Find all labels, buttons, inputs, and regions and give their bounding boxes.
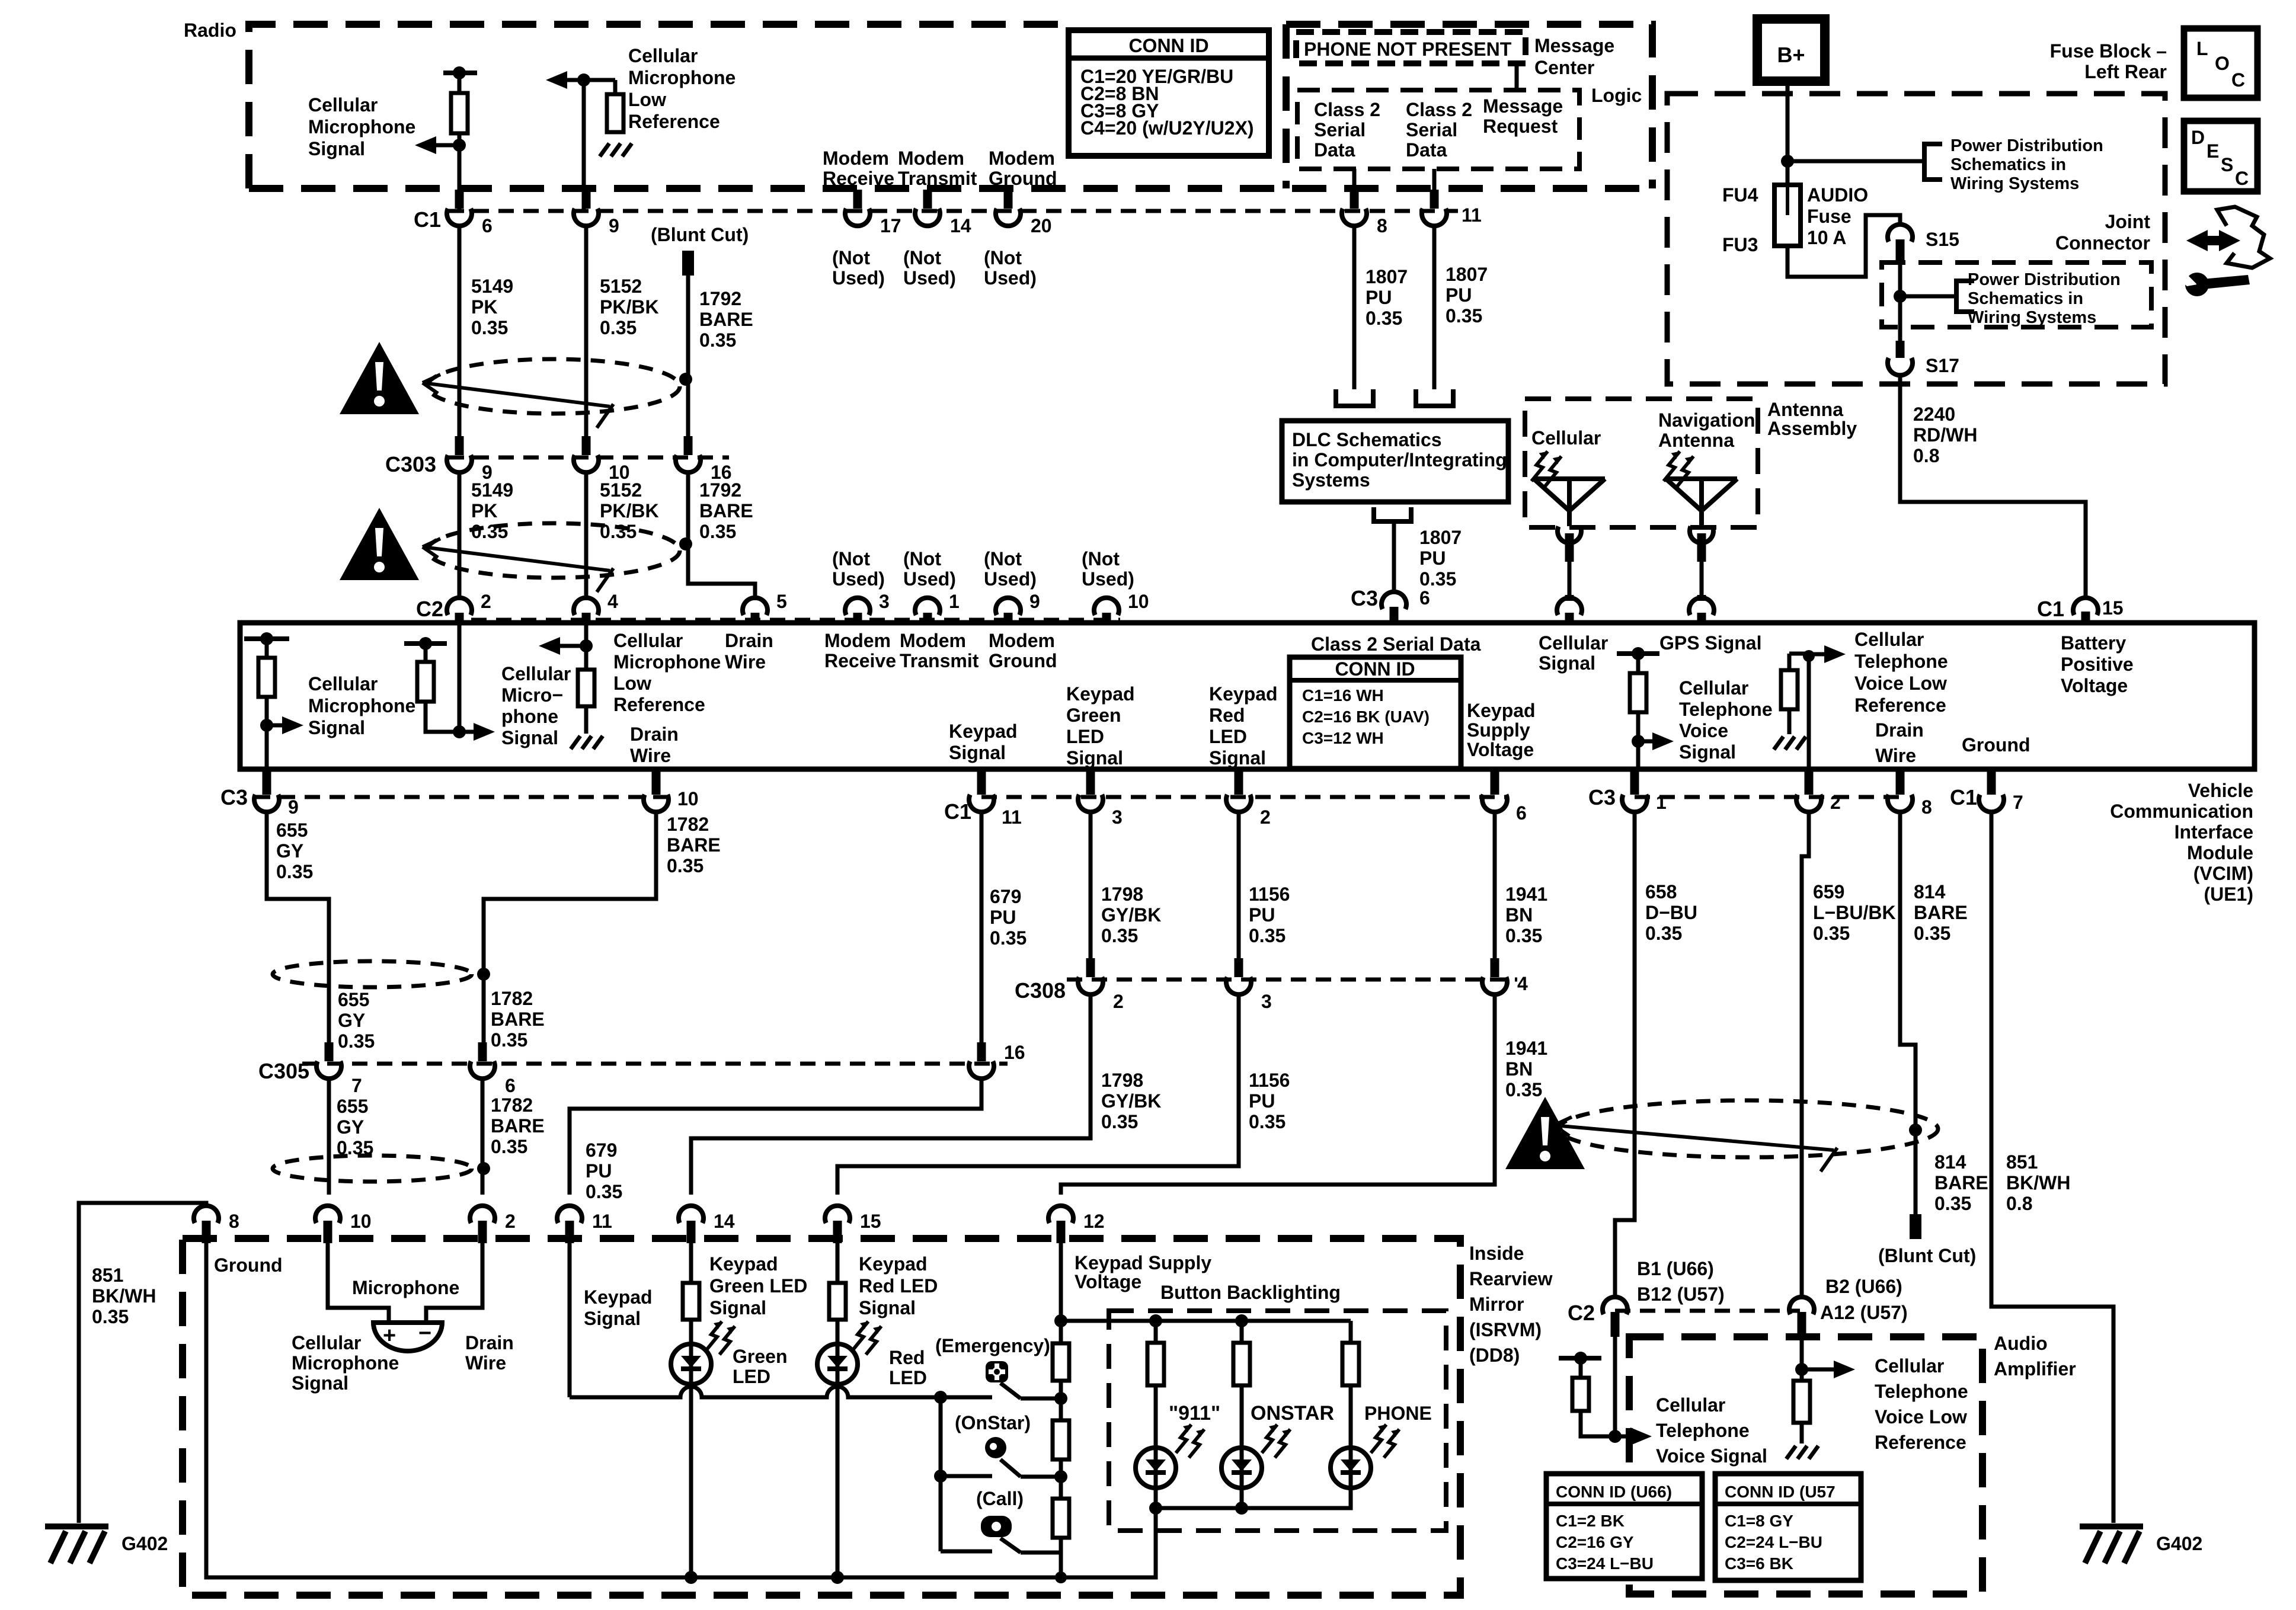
connector C2 antenna pin (gps signal) [1689, 598, 1714, 623]
connector C3 pin 10 (drain wire) [644, 770, 699, 812]
svg-text:1782: 1782 [491, 1094, 533, 1116]
svg-text:(ISRVM): (ISRVM) [1469, 1319, 1542, 1340]
svg-text:15: 15 [2102, 597, 2124, 619]
svg-text:17: 17 [880, 215, 901, 236]
svg-text:14: 14 [950, 215, 971, 236]
svg-text:Antenna: Antenna [1767, 399, 1843, 420]
Button Backlighting dashed box [1109, 1311, 1446, 1531]
svg-text:0.8: 0.8 [1913, 445, 1939, 466]
svg-text:1798: 1798 [1101, 1070, 1143, 1091]
svg-text:Signal: Signal [949, 742, 1006, 763]
shield symbol twisted pair (lower) [423, 523, 680, 592]
svg-text:1792: 1792 [699, 479, 741, 501]
svg-text:814: 814 [1934, 1151, 1966, 1173]
svg-text:0.35: 0.35 [471, 317, 508, 338]
svg-text:Audio: Audio [1994, 1333, 2048, 1354]
backlighting onstar branch resistor [1233, 1321, 1250, 1448]
svg-text:B2 (U66): B2 (U66) [1825, 1276, 1902, 1297]
svg-text:3: 3 [879, 591, 890, 612]
svg-text:Battery: Battery [2061, 632, 2126, 654]
red LED [817, 1344, 858, 1384]
svg-text:5152: 5152 [600, 479, 642, 501]
(Not Used) label pin 20 [984, 247, 1037, 289]
svg-text:Green LED: Green LED [709, 1275, 807, 1297]
svg-text:1798: 1798 [1101, 884, 1143, 905]
svg-text:Voice Low: Voice Low [1875, 1406, 1967, 1427]
svg-text:(VCIM): (VCIM) [2193, 863, 2253, 884]
resistor voice signal (amplifier) [1559, 1352, 1615, 1436]
C3 label (right row) [1588, 785, 1616, 809]
svg-text:PU: PU [1419, 548, 1446, 569]
svg-text:GY/BK: GY/BK [1101, 904, 1161, 926]
resistor chain R2 (onstar) [1053, 1420, 1069, 1499]
svg-text:2: 2 [505, 1211, 516, 1232]
svg-text:0.35: 0.35 [1446, 305, 1482, 327]
lightning phone led [1371, 1425, 1399, 1458]
svg-text:Red LED: Red LED [859, 1275, 938, 1297]
svg-text:655: 655 [276, 820, 308, 841]
wire label 1807 PU 0.35 (pin8) [1366, 266, 1408, 329]
svg-text:10 A: 10 A [1807, 227, 1846, 248]
wire label 5152 PK/BK 0.35 (upper) [600, 276, 659, 338]
connector C308 pin 4 [1482, 958, 1528, 994]
wire label 814 BARE 0.35 (upper) [1914, 881, 1968, 944]
svg-text:2: 2 [1113, 991, 1124, 1012]
svg-text:Power Distribution: Power Distribution [1968, 270, 2121, 289]
svg-text:BARE: BARE [699, 500, 753, 521]
svg-text:GY: GY [337, 1116, 364, 1138]
svg-text:4: 4 [1517, 973, 1528, 994]
svg-text:Used): Used) [903, 568, 956, 590]
connector C1 pin 9 [574, 190, 619, 236]
wire fuse to S15 [1787, 215, 1900, 277]
wire 5149 PK from C303-9 to C2-2 [458, 472, 462, 600]
svg-text:Request: Request [1483, 116, 1558, 137]
svg-text:8: 8 [229, 1211, 239, 1232]
Modem Receive label (VCIM) [824, 630, 896, 671]
svg-text:851: 851 [92, 1265, 123, 1286]
svg-text:Cellular: Cellular [1656, 1394, 1725, 1416]
Modem Transmit label (VCIM) [900, 630, 979, 671]
svg-text:CONN ID: CONN ID [1335, 658, 1415, 680]
arrow cellular microphone signal B (VCIM) [459, 723, 495, 741]
resistor voice low reference (amplifier) [1793, 1369, 1810, 1443]
svg-text:S15: S15 [1926, 229, 1959, 250]
wire 655 GY C305-7 to mic 10 [327, 1078, 331, 1195]
svg-text:Drain: Drain [1875, 719, 1924, 741]
C308 label [1015, 978, 1066, 1003]
connector C2 pin 5 (drain wire) [743, 591, 787, 623]
svg-text:Cellular: Cellular [292, 1332, 361, 1353]
svg-text:0.35: 0.35 [1505, 925, 1542, 946]
svg-text:Reference: Reference [1854, 694, 1946, 716]
arrow cellular microphone signal (radio) [415, 136, 466, 154]
svg-text:Fuse Block –: Fuse Block – [2050, 40, 2167, 62]
connector ISRVM pin 2 (drain wire) [470, 1206, 516, 1243]
svg-text:0.35: 0.35 [1366, 308, 1402, 329]
wire label 1807 PU 0.35 (to VCIM C3-6) [1419, 527, 1462, 590]
ground (VCIM low reference) [571, 736, 603, 749]
svg-text:Wire: Wire [1875, 745, 1916, 766]
svg-text:C1: C1 [1950, 785, 1977, 809]
svg-text:Red: Red [1209, 705, 1245, 726]
Cellular Signal label (VCIM) [1539, 632, 1608, 674]
svg-text:0.35: 0.35 [491, 1136, 527, 1157]
wire label 1782 BARE 0.35 (middle) [491, 988, 545, 1051]
svg-text:1156: 1156 [1249, 884, 1290, 905]
Inside Rearview Mirror ISRVM dashed box [183, 1238, 1460, 1595]
Keypad Green LED Signal label (VCIM) [1066, 683, 1135, 769]
svg-text:0.35: 0.35 [1934, 1193, 1971, 1214]
switch bus to onstar switch [941, 1474, 992, 1478]
svg-text:Cellular: Cellular [628, 45, 698, 66]
svg-text:AUDIO: AUDIO [1807, 184, 1868, 206]
Cellular Telephone Voice Signal label (VCIM) [1679, 677, 1773, 763]
wire label 679 PU 0.35 (lower) [586, 1140, 622, 1202]
svg-text:Signal: Signal [1539, 652, 1595, 674]
wire keypad supply ISRVM-12 to resistor chain [1054, 1243, 1067, 1343]
connector row C3 dashed line (right) [1635, 795, 1902, 799]
warning triangle (right shield) [1505, 1097, 1585, 1169]
svg-text:0.35: 0.35 [1505, 1079, 1542, 1100]
wire label 655 GY 0.35 (upper) [276, 820, 313, 882]
svg-text:11: 11 [592, 1211, 612, 1232]
wire label 655 GY 0.35 (lower) [337, 1096, 373, 1158]
wire 5149 PK from C1-6 to C303-9 [458, 224, 462, 438]
svg-text:0.35: 0.35 [1101, 925, 1138, 946]
C1 label (pin 7) [1950, 785, 1977, 809]
svg-text:Keypad: Keypad [1066, 683, 1135, 705]
svg-text:Positive: Positive [2061, 654, 2134, 675]
Cellular Microphone Signal label (radio) [308, 94, 415, 159]
ground (VCIM voice low reference) [1774, 737, 1806, 750]
svg-text:Micro−: Micro− [501, 684, 563, 706]
C1 label (radio row) [414, 207, 441, 232]
svg-text:Signal: Signal [1679, 741, 1736, 763]
connector C1 pin 6 [447, 190, 493, 236]
svg-text:Transmit: Transmit [900, 650, 979, 671]
svg-text:C3=24 L−BU: C3=24 L−BU [1556, 1554, 1654, 1573]
svg-text:12: 12 [1083, 1211, 1105, 1232]
svg-text:4: 4 [607, 591, 618, 612]
Message Center Logic dashed box [1286, 24, 1652, 188]
svg-text:0.35: 0.35 [276, 861, 313, 882]
splice S15 [1888, 225, 1959, 263]
ground (radio low reference) [600, 143, 632, 156]
svg-text:(UE1): (UE1) [2204, 884, 2253, 905]
(Not Used) label C2 pin 9 [984, 548, 1037, 590]
CONN ID table (VCIM) [1290, 657, 1461, 769]
Keypad Supply Voltage label (ISRVM) [1075, 1252, 1211, 1292]
connector C2 pin 2 [447, 591, 491, 623]
connector C1 pin 8 (class 2 serial data) [1342, 190, 1387, 236]
connector C1 pin 14 (modem transmit) [915, 190, 971, 236]
svg-text:0.35: 0.35 [600, 521, 637, 542]
Radio label [184, 20, 236, 41]
wire C2-4 low reference with arrow (VCIM) [580, 623, 593, 652]
connector C1 pin 6 (keypad supply voltage) [1482, 770, 1527, 824]
(Blunt Cut) label bottom [1878, 1245, 1976, 1266]
svg-text:1: 1 [949, 591, 960, 612]
CONN ID (U66) table [1546, 1474, 1702, 1579]
B2 (U66) A12 (U57) pin label [1820, 1276, 1908, 1323]
svg-text:Message: Message [1534, 35, 1614, 56]
Navigation Antenna label [1658, 409, 1755, 451]
svg-text:0.35: 0.35 [600, 317, 637, 338]
junction dot 814 at shield (right) [1909, 1124, 1922, 1137]
svg-text:FU3: FU3 [1722, 234, 1758, 255]
svg-text:G402: G402 [2156, 1533, 2202, 1554]
svg-text:Keypad: Keypad [949, 721, 1018, 742]
C305 label [258, 1059, 309, 1083]
svg-text:9: 9 [288, 796, 299, 818]
arrow cellular telephone voice low reference (VCIM) [1809, 645, 1846, 663]
wire 679 PU C305-16 to keypad 11 [570, 1078, 981, 1195]
svg-text:Class 2: Class 2 [1406, 99, 1472, 120]
svg-text:9: 9 [1029, 591, 1040, 612]
connector C308 pin 3 [1226, 958, 1272, 1012]
svg-text:11: 11 [1002, 806, 1022, 828]
Battery Positive Voltage label (VCIM) [2061, 632, 2134, 696]
svg-text:1782: 1782 [491, 988, 533, 1009]
wire label 1782 BARE 0.35 (upper) [667, 814, 721, 876]
svg-text:5: 5 [776, 591, 787, 612]
svg-text:L: L [2196, 38, 2208, 59]
wire label 655 GY 0.35 (middle) [338, 989, 375, 1052]
svg-text:BN: BN [1505, 904, 1533, 926]
CONN ID table (radio) [1069, 30, 1269, 156]
wire label 5149 PK 0.35 (lower) [471, 479, 513, 542]
wire 659 L-BU/BK C3-2 to amplifier C2-B2 [1802, 811, 1809, 1298]
svg-text:Class 2 Serial Data: Class 2 Serial Data [1311, 633, 1481, 655]
wire 1807 PU from pin 8 down to DLC [1336, 224, 1373, 406]
svg-text:2: 2 [481, 591, 491, 612]
connector C1 pin 17 (modem receive) [845, 190, 901, 236]
svg-text:GY: GY [276, 840, 303, 862]
green LED [671, 1344, 711, 1384]
wire label 1156 PU 0.35 (lower) [1249, 1070, 1290, 1132]
connector C3 pin 9 (cellular microphone signal) [254, 770, 299, 818]
svg-text:Used): Used) [903, 267, 956, 289]
svg-text:Cellular: Cellular [501, 663, 571, 684]
svg-text:11: 11 [1462, 204, 1482, 226]
ONSTAR label [1251, 1402, 1334, 1425]
svg-text:CONN ID (U66): CONN ID (U66) [1556, 1483, 1672, 1501]
svg-text:C1: C1 [2037, 597, 2064, 621]
svg-text:851: 851 [2006, 1151, 2038, 1173]
svg-text:Keypad: Keypad [859, 1253, 928, 1275]
Ground label (VCIM) [1962, 734, 2030, 756]
resistor cellular microphone signal A (VCIM) [244, 632, 289, 769]
Keypad Green LED Signal label (ISRVM) [709, 1253, 807, 1318]
cellular antenna lead connector [1558, 526, 1581, 601]
connector ISRVM pin 14 (keypad green led signal) [679, 1206, 735, 1243]
microphone symbol [373, 1321, 442, 1351]
svg-text:Rearview: Rearview [1469, 1268, 1553, 1289]
resistor cellular telephone voice signal (VCIM) [1617, 647, 1659, 769]
(OnStar) label [955, 1412, 1031, 1433]
wire 1798 GY/BK C308-2 to keypad 14 [691, 994, 1091, 1195]
arrow cellular microphone signal A (VCIM) [267, 716, 303, 734]
svg-text:0.35: 0.35 [1249, 925, 1285, 946]
svg-text:(Not: (Not [903, 247, 941, 268]
resistor cellular microphone signal B (VCIM) [404, 637, 459, 732]
svg-text:Green: Green [733, 1346, 787, 1367]
connector row C303 dashed line [449, 456, 729, 460]
svg-text:Drain: Drain [465, 1332, 514, 1353]
svg-text:Data: Data [1406, 139, 1447, 161]
svg-text:Cellular: Cellular [1539, 632, 1608, 654]
svg-text:GY/BK: GY/BK [1101, 1090, 1161, 1112]
wire 5152 PK/BK from C1-9 to C303-10 [584, 224, 589, 438]
(Not Used) label C2 pin 3 [832, 548, 885, 590]
svg-text:Serial: Serial [1406, 119, 1457, 140]
svg-text:1807: 1807 [1419, 527, 1462, 548]
C303 label [385, 452, 436, 476]
svg-text:C2: C2 [1568, 1301, 1595, 1325]
svg-text:Microphone: Microphone [308, 695, 415, 716]
svg-text:(Blunt Cut): (Blunt Cut) [1878, 1245, 1976, 1266]
svg-text:GY: GY [338, 1010, 365, 1031]
shield symbol twisted pair (right) [1554, 1100, 1938, 1172]
svg-text:679: 679 [990, 886, 1021, 907]
svg-text:Ground: Ground [989, 168, 1057, 189]
wire 1798 GY/BK C1-3 to C308-2 [1089, 811, 1093, 965]
svg-text:PU: PU [1249, 904, 1275, 926]
wire 1782 BARE C3-10 to C305-6 [484, 811, 656, 1043]
svg-text:+: + [383, 1323, 396, 1348]
svg-text:Fuse: Fuse [1807, 206, 1851, 227]
Cellular Micro-phone Signal label B (VCIM) [501, 663, 571, 748]
PHONE LED [1331, 1448, 1371, 1488]
resistor chain R3 (call) [1053, 1499, 1069, 1538]
connector C303 pin 16 [676, 436, 732, 483]
svg-text:Serial: Serial [1314, 119, 1366, 140]
svg-text:PHONE NOT PRESENT: PHONE NOT PRESENT [1304, 39, 1512, 60]
Joint Connector label [2055, 211, 2150, 254]
svg-text:Signal: Signal [1209, 747, 1266, 769]
wire label 851 BK/WH 0.35 [92, 1265, 156, 1327]
svg-text:6: 6 [482, 215, 493, 236]
C3 label (left row) [220, 785, 248, 809]
internal ground bus ISRVM [206, 1243, 1156, 1577]
svg-text:(Blunt Cut): (Blunt Cut) [651, 224, 749, 245]
svg-text:Antenna: Antenna [1658, 430, 1734, 451]
connector row C305 dashed line [302, 1062, 1008, 1066]
svg-text:S17: S17 [1926, 355, 1959, 376]
svg-text:Signal: Signal [709, 1297, 766, 1318]
svg-text:−: − [418, 1321, 431, 1346]
Cellular Microphone Signal label A (VCIM) [308, 673, 415, 738]
wire 1941 BN C1-6 to C308-4 [1493, 811, 1497, 965]
Logic label [1591, 85, 1642, 106]
svg-text:Cellular: Cellular [613, 630, 683, 651]
wire green led to ground bus [685, 1384, 698, 1584]
resistor chain to ground bus [1055, 1538, 1067, 1583]
svg-text:LED: LED [889, 1367, 927, 1388]
svg-text:S: S [2221, 154, 2233, 175]
FU4 label [1722, 184, 1758, 206]
svg-text:BARE: BARE [491, 1009, 545, 1030]
Audio Amplifier dashed box [1629, 1337, 1982, 1594]
svg-text:10: 10 [677, 788, 699, 809]
svg-text:Telephone: Telephone [1679, 699, 1773, 720]
Cellular Telephone Voice Low Reference label (VCIM) [1854, 629, 1948, 716]
C1 label (middle row) [944, 799, 971, 824]
svg-text:2: 2 [1260, 806, 1271, 828]
Antenna Assembly label [1767, 399, 1857, 439]
resistor keypad red led [829, 1243, 846, 1345]
svg-text:Cellular: Cellular [308, 94, 378, 116]
svg-text:BN: BN [1505, 1058, 1533, 1080]
onstar switch lever [1000, 1459, 1062, 1477]
svg-text:Wire: Wire [630, 745, 671, 766]
Radio module dashed box [249, 24, 1652, 188]
svg-text:C3: C3 [1588, 785, 1616, 809]
C2 label [416, 597, 443, 621]
connector ISRVM pin 8 (ground) [194, 1206, 239, 1243]
svg-text:Joint: Joint [2105, 211, 2151, 232]
svg-text:Keypad Supply: Keypad Supply [1075, 1252, 1211, 1273]
Class 2 Serial Data label (VCIM) [1311, 633, 1481, 655]
wire 2240 RD/WH from S17 to VCIM C1-15 [1900, 375, 2086, 599]
wire label 1807 PU 0.35 (pin11) [1446, 264, 1488, 327]
svg-text:Reference: Reference [613, 694, 705, 715]
warning triangle (lower shield) [340, 508, 419, 580]
svg-text:DLC Schematics: DLC Schematics [1292, 429, 1442, 450]
wire label 1792 BARE 0.35 (upper) [699, 288, 753, 351]
svg-text:C305: C305 [258, 1059, 309, 1083]
blunt cut terminal 1792 wire [682, 251, 694, 438]
connector C303 pin 9 [447, 436, 493, 483]
ground (amplifier voice low reference) [1786, 1446, 1818, 1459]
connector C305 pin 7 [316, 1042, 362, 1096]
backlighting phone branch resistor [1342, 1321, 1359, 1448]
svg-text:Receive: Receive [824, 650, 896, 671]
svg-text:BK/WH: BK/WH [92, 1285, 156, 1307]
wire voice signal into amplifier [1609, 1337, 1622, 1443]
Cellular Telephone Voice Signal label (amplifier) [1656, 1394, 1767, 1467]
svg-text:Drain: Drain [630, 724, 679, 745]
Modem Receive label (radio) [823, 148, 894, 189]
svg-text:C308: C308 [1015, 978, 1066, 1003]
svg-text:1941: 1941 [1505, 1038, 1547, 1059]
svg-text:BARE: BARE [667, 834, 721, 856]
svg-text:0.8: 0.8 [2006, 1193, 2032, 1214]
Message Request dashed box (Class 2 Serial Data) [1297, 90, 1579, 169]
svg-text:LED: LED [733, 1366, 770, 1387]
svg-text:Keypad: Keypad [1467, 700, 1536, 721]
Message Center label [1534, 35, 1614, 78]
arrow cellular microphone low reference (radio) [546, 71, 570, 89]
svg-text:1941: 1941 [1505, 884, 1547, 905]
svg-text:8: 8 [1921, 796, 1932, 818]
shield symbol drain (lowest) [273, 1156, 472, 1182]
blunt cut terminal 814 wire [1910, 1214, 1921, 1239]
Power Distribution Schematics in Wiring Systems label (upper) [1950, 136, 2103, 193]
svg-text:LED: LED [1209, 726, 1247, 747]
Microphone label [352, 1277, 459, 1298]
svg-text:BARE: BARE [1934, 1172, 1988, 1193]
svg-text:Used): Used) [832, 267, 885, 289]
(Not Used) label C2 pin 10 [1082, 548, 1134, 590]
wire voice low reference into amplifier [1795, 1337, 1808, 1376]
svg-text:15: 15 [860, 1211, 881, 1232]
connector C3 pin 2 (voice low reference) [1796, 770, 1841, 813]
svg-text:0.35: 0.35 [491, 1029, 527, 1051]
DLC Schematics box [1282, 421, 1508, 502]
wire label 679 PU 0.35 (upper) [990, 886, 1027, 949]
